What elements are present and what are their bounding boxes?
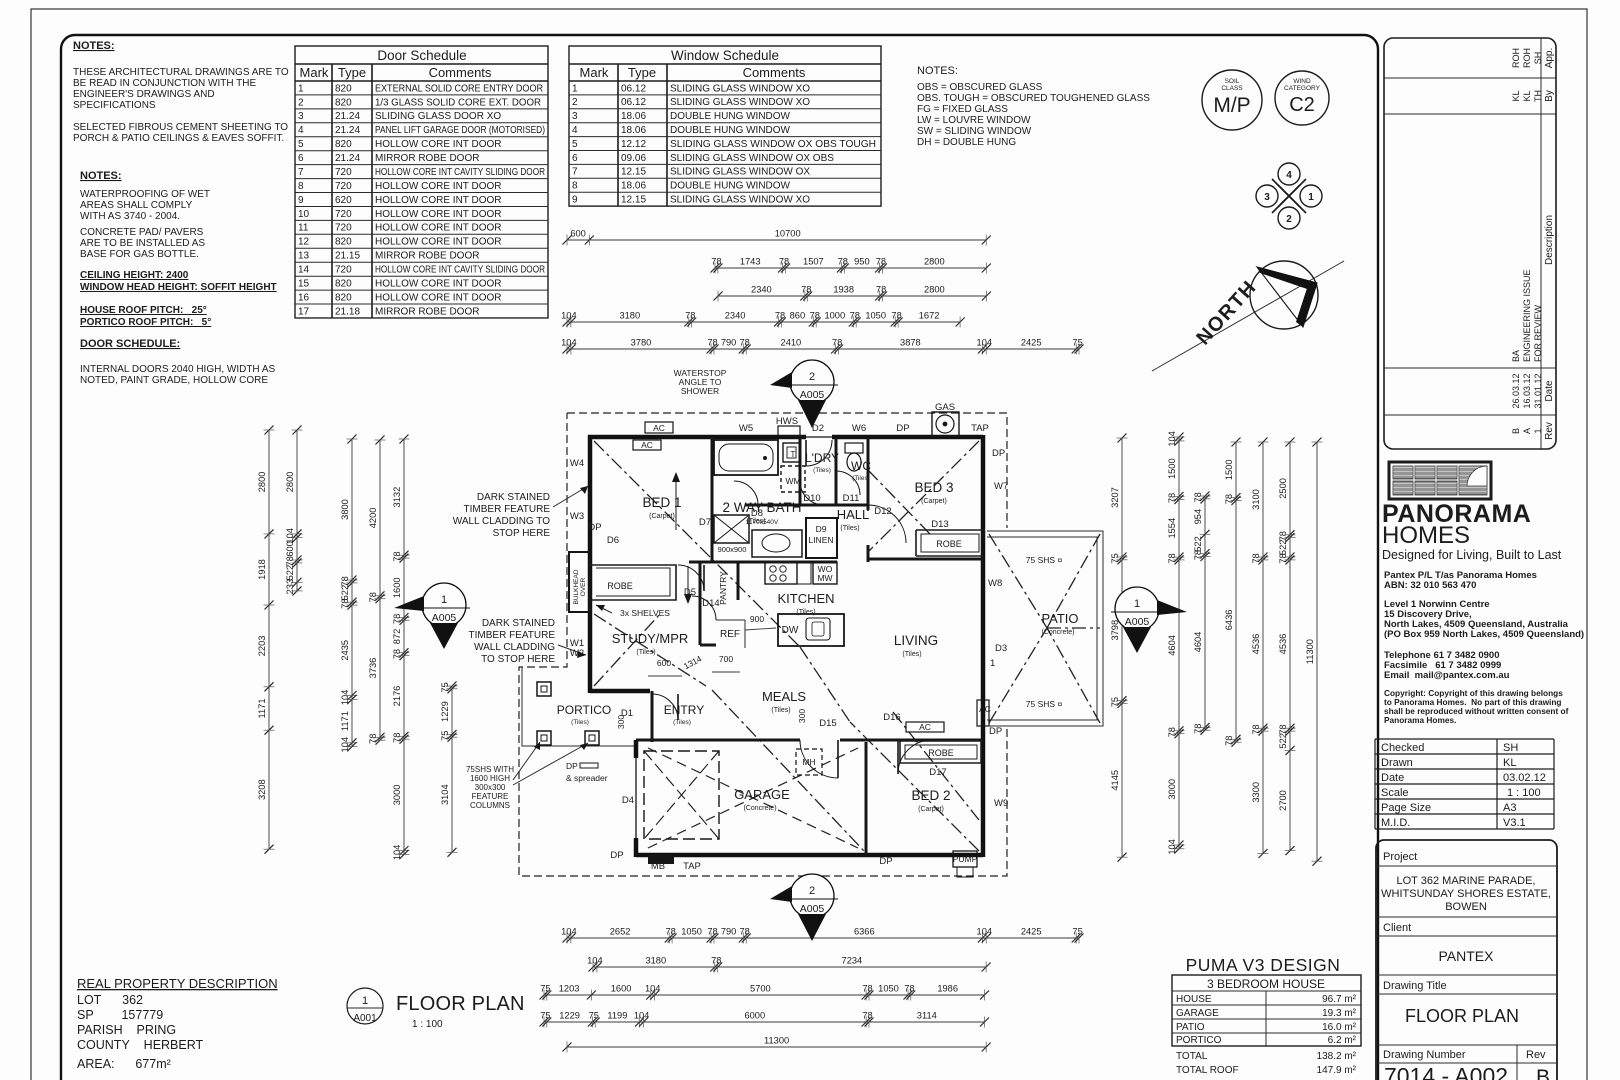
svg-text:860: 860 [790, 311, 806, 321]
svg-text:LW = LOUVRE WINDOW: LW = LOUVRE WINDOW [917, 115, 1031, 126]
door arc D12 bed3 [868, 505, 906, 543]
svg-text:PUMA V3 DESIGN: PUMA V3 DESIGN [1186, 955, 1341, 975]
svg-text:78: 78 [1224, 494, 1234, 504]
svg-text:12: 12 [298, 237, 310, 248]
svg-text:1507: 1507 [803, 257, 824, 267]
svg-text:MEALS: MEALS [762, 689, 806, 704]
svg-text:78: 78 [392, 551, 402, 561]
svg-text:4536: 4536 [1278, 634, 1288, 655]
svg-text:D7: D7 [699, 517, 711, 528]
top dim line 600/10700 [567, 239, 986, 241]
svg-text:3 BEDROOM HOUSE: 3 BEDROOM HOUSE [1207, 977, 1325, 991]
svg-text:75: 75 [540, 1011, 550, 1021]
svg-text:3: 3 [572, 111, 578, 122]
svg-text:BED 3: BED 3 [914, 480, 953, 495]
svg-text:03.02.12: 03.02.12 [1503, 772, 1546, 784]
svg-text:D5: D5 [684, 587, 696, 598]
svg-text:WITH AS 3740 - 2004.: WITH AS 3740 - 2004. [80, 211, 180, 222]
svg-text:D6: D6 [607, 535, 619, 546]
svg-text:D2: D2 [812, 423, 824, 434]
svg-text:FLOOR PLAN: FLOOR PLAN [396, 993, 525, 1015]
garage-bed2 wall [865, 742, 868, 855]
svg-text:1 : 100: 1 : 100 [1507, 787, 1541, 799]
svg-text:T: T [791, 450, 796, 459]
portico columns [537, 682, 599, 745]
svg-text:THESE ARCHITECTURAL DRAWINGS A: THESE ARCHITECTURAL DRAWINGS ARE TO [73, 67, 289, 78]
svg-text:4604: 4604 [1167, 635, 1177, 656]
svg-text:522: 522 [1278, 540, 1288, 556]
svg-text:75: 75 [1072, 338, 1082, 348]
svg-text:W3: W3 [570, 511, 584, 522]
patio slab [987, 531, 1103, 726]
svg-text:522: 522 [1193, 536, 1203, 552]
robe bulkhead bump [569, 552, 590, 612]
svg-text:3780: 3780 [631, 338, 652, 348]
svg-text:11300: 11300 [764, 1036, 789, 1046]
svg-text:FEATURE: FEATURE [472, 792, 509, 801]
svg-text:(Carpet): (Carpet) [918, 806, 944, 813]
svg-text:DP: DP [588, 522, 601, 533]
svg-text:Designed for Living, Built to: Designed for Living, Built to Last [1382, 548, 1562, 562]
svg-text:(PO Box 959 North Lakes, 4509: (PO Box 959 North Lakes, 4509 Queensland… [1384, 629, 1584, 640]
svg-text:A3: A3 [1503, 802, 1516, 814]
svg-text:6436: 6436 [1224, 610, 1234, 631]
svg-text:BULKHEAD: BULKHEAD [573, 569, 580, 604]
svg-text:3x SHELVES: 3x SHELVES [620, 608, 670, 618]
svg-text:3800: 3800 [340, 499, 350, 520]
right dim line 7 11300 [1316, 442, 1318, 861]
svg-text:21.15: 21.15 [335, 251, 360, 262]
svg-text:(Tiles): (Tiles) [636, 649, 655, 656]
svg-text:DP: DP [566, 761, 578, 771]
svg-text:SLIDING GLASS WINDOW XO: SLIDING GLASS WINDOW XO [670, 83, 810, 94]
svg-text:DP: DP [896, 423, 909, 434]
svg-text:16.03.12: 16.03.12 [1522, 373, 1532, 408]
svg-text:2: 2 [572, 97, 578, 108]
svg-text:WATERPROOFING OF WET: WATERPROOFING OF WET [80, 189, 210, 200]
svg-text:78: 78 [707, 338, 717, 348]
svg-text:W6: W6 [852, 423, 866, 434]
roof hip study a [594, 614, 706, 686]
svg-text:1986: 1986 [937, 984, 958, 994]
right dim line 6 [1289, 442, 1291, 851]
kitchen island [778, 614, 844, 646]
svg-text:MIRROR ROBE DOOR: MIRROR ROBE DOOR [375, 153, 479, 164]
svg-text:6: 6 [298, 153, 304, 164]
bath-hall wall [745, 504, 800, 507]
svg-text:SLIDING GLASS WINDOW OX: SLIDING GLASS WINDOW OX [670, 167, 810, 178]
svg-text:1672: 1672 [919, 311, 940, 321]
door arc D10 [800, 481, 824, 505]
svg-text:6.2 m²: 6.2 m² [1328, 1035, 1357, 1046]
svg-text:(Carpet): (Carpet) [921, 498, 947, 505]
svg-text:820: 820 [335, 237, 352, 248]
section marker left [394, 583, 470, 649]
svg-text:HOLLOW CORE INT DOOR: HOLLOW CORE INT DOOR [375, 223, 502, 234]
svg-text:8: 8 [572, 181, 578, 192]
svg-text:(Tiles): (Tiles) [902, 651, 921, 658]
svg-text:3300: 3300 [1251, 782, 1261, 803]
svg-text:10: 10 [298, 209, 310, 220]
svg-text:900x900: 900x900 [718, 545, 747, 554]
svg-text:78: 78 [711, 956, 721, 966]
svg-text:PATIO: PATIO [1176, 1022, 1205, 1033]
svg-text:OBS = OBSCURED GLASS: OBS = OBSCURED GLASS [917, 82, 1043, 93]
svg-text:78: 78 [850, 311, 860, 321]
svg-text:1050: 1050 [681, 927, 702, 937]
soil class symbol M/P [1202, 70, 1262, 130]
svg-text:1: 1 [990, 658, 995, 669]
svg-text:104: 104 [645, 984, 661, 994]
ldry-wc wall [799, 437, 802, 505]
svg-text:790: 790 [721, 338, 737, 348]
garage internal cross box [644, 751, 719, 839]
top dim line 4 [567, 321, 960, 323]
svg-text:820: 820 [335, 279, 352, 290]
svg-text:STOP HERE: STOP HERE [493, 528, 551, 539]
svg-text:HALL: HALL [837, 507, 870, 522]
svg-text:720: 720 [335, 181, 352, 192]
svg-text:620: 620 [335, 195, 352, 206]
svg-text:GARAGE: GARAGE [734, 787, 790, 802]
svg-text:2203: 2203 [257, 636, 267, 657]
svg-text:21.24: 21.24 [335, 153, 360, 164]
wall oven microwave [813, 562, 837, 584]
svg-text:Date: Date [1381, 772, 1404, 784]
svg-text:D4: D4 [622, 795, 634, 806]
svg-text:104: 104 [392, 845, 402, 861]
svg-text:Project: Project [1383, 851, 1417, 863]
svg-text:STUDY/MPR: STUDY/MPR [612, 631, 689, 646]
svg-text:AC: AC [653, 423, 665, 433]
svg-text:78: 78 [740, 927, 750, 937]
svg-text:1170x540V: 1170x540V [746, 519, 779, 526]
svg-text:3132: 3132 [392, 487, 402, 508]
svg-text:PANTEX: PANTEX [1439, 948, 1495, 964]
svg-text:REF: REF [720, 629, 740, 640]
svg-text:1: 1 [1134, 598, 1140, 610]
svg-text:75: 75 [1110, 697, 1120, 707]
svg-text:1050: 1050 [878, 984, 899, 994]
svg-text:3180: 3180 [645, 956, 666, 966]
svg-text:HOLLOW CORE INT DOOR: HOLLOW CORE INT DOOR [375, 139, 502, 150]
svg-text:78: 78 [1251, 724, 1261, 734]
svg-text:COUNTY HERBERT: COUNTY HERBERT [77, 1038, 204, 1052]
svg-text:CATEGORY: CATEGORY [1284, 85, 1321, 92]
svg-text:D11: D11 [843, 493, 860, 504]
svg-text:App.: App. [1544, 48, 1555, 69]
svg-text:3180: 3180 [619, 311, 640, 321]
svg-text:TOTAL: TOTAL [1176, 1051, 1208, 1062]
svg-text:78: 78 [392, 733, 402, 743]
svg-text:KITCHEN: KITCHEN [777, 591, 834, 606]
svg-text:78: 78 [340, 599, 350, 609]
svg-text:720: 720 [335, 265, 352, 276]
svg-text:78: 78 [666, 927, 676, 937]
svg-text:78: 78 [685, 311, 695, 321]
svg-text:(Tiles): (Tiles) [673, 719, 691, 726]
svg-text:ROH: ROH [1522, 48, 1532, 68]
svg-text:1: 1 [1308, 192, 1314, 203]
wc right wall [835, 437, 838, 505]
svg-text:SLIDING GLASS DOOR XO: SLIDING GLASS DOOR XO [375, 111, 501, 122]
svg-text:21.24: 21.24 [335, 125, 360, 136]
svg-text:Page Size: Page Size [1381, 802, 1431, 814]
svg-text:78: 78 [1251, 553, 1261, 563]
left dim line 3 [351, 439, 353, 747]
svg-text:104: 104 [340, 737, 350, 753]
svg-text:NOTES:: NOTES: [917, 65, 958, 77]
hall-bed3 wall [867, 437, 870, 510]
svg-text:M/P: M/P [1213, 94, 1250, 117]
svg-text:Email mail@pantex.com.au: Email mail@pantex.com.au [1384, 670, 1510, 681]
svg-text:4200: 4200 [368, 508, 378, 529]
svg-text:DARK STAINED: DARK STAINED [482, 618, 555, 629]
right dim line 1 [1121, 438, 1123, 857]
svg-text:820: 820 [335, 97, 352, 108]
svg-text:2800: 2800 [924, 285, 945, 295]
section marker bottom [770, 874, 838, 941]
bath-kitchen wall [689, 561, 837, 564]
svg-text:78: 78 [392, 649, 402, 659]
svg-text:ENGINEERING ISSUE: ENGINEERING ISSUE [1522, 269, 1532, 362]
svg-text:147.9 m²: 147.9 m² [1317, 1065, 1357, 1076]
svg-text:BA: BA [1511, 350, 1521, 362]
svg-text:WHITSUNDAY SHORES ESTATE,: WHITSUNDAY SHORES ESTATE, [1381, 888, 1551, 900]
svg-text:MIRROR ROBE DOOR: MIRROR ROBE DOOR [375, 251, 479, 262]
svg-text:3: 3 [1264, 192, 1270, 203]
roof ridge [800, 647, 850, 722]
svg-text:820: 820 [335, 83, 352, 94]
svg-text:FG = FIXED GLASS: FG = FIXED GLASS [917, 104, 1008, 115]
svg-text:D14: D14 [702, 598, 719, 609]
svg-text:WINDOW HEAD HEIGHT: SOFFIT HEI: WINDOW HEAD HEIGHT: SOFFIT HEIGHT [80, 282, 277, 293]
svg-text:TAP: TAP [971, 423, 989, 434]
exterior wall bottom [636, 853, 983, 858]
svg-text:FOR REVIEW: FOR REVIEW [1533, 304, 1543, 362]
svg-text:TIMBER FEATURE: TIMBER FEATURE [469, 630, 556, 641]
door arc D2 ldry [806, 440, 832, 466]
svg-text:MW: MW [817, 573, 832, 583]
svg-text:1199: 1199 [607, 1011, 627, 1021]
svg-text:D17: D17 [929, 767, 946, 778]
svg-text:78: 78 [740, 338, 750, 348]
svg-text:19.3 m²: 19.3 m² [1322, 1008, 1357, 1019]
svg-text:96.7 m²: 96.7 m² [1322, 994, 1357, 1005]
svg-text:AC: AC [919, 722, 931, 732]
svg-text:4: 4 [1286, 170, 1292, 181]
svg-text:ROH: ROH [1511, 48, 1521, 68]
svg-text:BE READ IN CONJUNCTION WITH TH: BE READ IN CONJUNCTION WITH THE [73, 78, 256, 89]
left dim line 4 [379, 440, 381, 740]
svg-text:Rev: Rev [1544, 422, 1555, 440]
wc bottom wall [800, 504, 868, 507]
svg-text:104: 104 [634, 1011, 650, 1021]
svg-text:L'DRY: L'DRY [805, 451, 839, 465]
svg-text:OVER: OVER [580, 577, 587, 596]
svg-text:CLASS: CLASS [1221, 85, 1243, 92]
area table [1172, 975, 1361, 1046]
svg-text:WIND: WIND [1293, 78, 1311, 85]
door arc D11 wc [836, 471, 860, 495]
exterior wall garage left [634, 740, 639, 857]
svg-text:21.24: 21.24 [335, 111, 360, 122]
svg-text:PORCH & PATIO CEILINGS & EAVES: PORCH & PATIO CEILINGS & EAVES SOFFIT. [73, 133, 284, 144]
svg-text:D12: D12 [874, 506, 891, 517]
svg-text:300: 300 [616, 715, 626, 729]
svg-text:1600 HIGH: 1600 HIGH [470, 774, 510, 783]
hws unit [778, 426, 800, 436]
svg-text:2: 2 [809, 371, 815, 383]
svg-text:4: 4 [298, 125, 304, 136]
top dim line 5 [567, 348, 1079, 350]
svg-text:1938: 1938 [833, 285, 854, 295]
portico slab [522, 667, 637, 746]
svg-text:KL: KL [1511, 90, 1521, 101]
svg-text:2: 2 [1286, 214, 1292, 225]
study bottom wall [590, 689, 650, 694]
svg-text:Description: Description [1544, 215, 1555, 265]
svg-text:PORTICO: PORTICO [1176, 1035, 1222, 1046]
svg-text:2800: 2800 [285, 472, 295, 493]
bath tub [714, 440, 778, 475]
wc toilet [845, 443, 863, 453]
svg-text:FLOOR PLAN: FLOOR PLAN [1405, 1006, 1519, 1026]
svg-text:720: 720 [335, 167, 352, 178]
svg-text:D16: D16 [883, 712, 900, 723]
svg-text:ARE TO BE INSTALLED AS: ARE TO BE INSTALLED AS [80, 238, 205, 249]
svg-text:1229: 1229 [440, 701, 450, 722]
svg-text:78: 78 [1193, 492, 1203, 502]
ac unit bed2 [906, 722, 944, 732]
svg-text:18.06: 18.06 [621, 125, 646, 136]
svg-text:ROBE: ROBE [607, 581, 633, 591]
svg-text:Door Schedule: Door Schedule [377, 48, 466, 63]
svg-text:DOUBLE HUNG WINDOW: DOUBLE HUNG WINDOW [670, 125, 791, 136]
left dim line 2 [296, 430, 298, 591]
svg-text:W7: W7 [994, 481, 1008, 492]
svg-text:C2: C2 [1289, 94, 1315, 116]
svg-text:7: 7 [572, 167, 578, 178]
svg-text:SHOWER: SHOWER [681, 386, 719, 396]
svg-text:A005: A005 [432, 612, 457, 624]
svg-text:OBS. TOUGH = OBSCURED TOUGHENE: OBS. TOUGH = OBSCURED TOUGHENED GLASS [917, 93, 1150, 104]
svg-text:104: 104 [340, 690, 350, 706]
svg-text:Drawing Number: Drawing Number [1383, 1049, 1466, 1061]
svg-text:21.18: 21.18 [335, 306, 360, 317]
bottom dim line 1 [567, 937, 1079, 939]
svg-text:78: 78 [707, 927, 717, 937]
svg-text:SELECTED FIBROUS CEMENT SHEETI: SELECTED FIBROUS CEMENT SHEETING TO [73, 122, 288, 133]
svg-text:11300: 11300 [1305, 639, 1315, 664]
elevation orientation symbol [1256, 163, 1322, 229]
svg-text:A001: A001 [353, 1013, 377, 1024]
svg-text:1171: 1171 [257, 699, 267, 719]
garage top wall [636, 739, 800, 742]
svg-text:2800: 2800 [257, 472, 267, 493]
svg-text:2340: 2340 [725, 311, 746, 321]
svg-text:TIMBER FEATURE: TIMBER FEATURE [464, 504, 551, 515]
svg-text:D10: D10 [803, 493, 820, 504]
svg-text:SP 157779: SP 157779 [77, 1008, 163, 1022]
svg-text:1 : 100: 1 : 100 [412, 1019, 443, 1030]
manhole [796, 749, 822, 775]
door arc D8 bath [734, 481, 758, 505]
pump box [953, 851, 977, 867]
roof hip meals [712, 690, 864, 851]
svg-text:SH: SH [1503, 742, 1518, 754]
svg-text:138.2 m²: 138.2 m² [1317, 1051, 1357, 1062]
bottom dim line 2 [593, 966, 986, 968]
svg-text:4536: 4536 [1251, 634, 1261, 655]
svg-text:(Concrete): (Concrete) [743, 805, 776, 812]
fridge space [716, 620, 745, 648]
door opening D2 [806, 434, 832, 441]
svg-text:BED 1: BED 1 [642, 495, 681, 510]
svg-text:SLIDING GLASS WINDOW OX OBS TO: SLIDING GLASS WINDOW OX OBS TOUGH [670, 139, 876, 150]
svg-text:12.15: 12.15 [621, 167, 646, 178]
svg-text:104: 104 [561, 927, 577, 937]
svg-text:NOTES:: NOTES: [80, 170, 122, 182]
svg-text:CONCRETE PAD/ PAVERS: CONCRETE PAD/ PAVERS [80, 227, 204, 238]
svg-text:78: 78 [1193, 550, 1203, 560]
svg-text:2: 2 [298, 97, 304, 108]
svg-text:300: 300 [797, 709, 807, 723]
svg-text:LOT 362 MARINE PARADE,: LOT 362 MARINE PARADE, [1397, 875, 1536, 887]
bed1 robe walls [590, 565, 676, 600]
svg-text:SW = SLIDING WINDOW: SW = SLIDING WINDOW [917, 126, 1032, 137]
svg-text:872: 872 [392, 629, 402, 645]
svg-text:Drawn: Drawn [1381, 757, 1413, 769]
svg-text:3104: 3104 [440, 784, 450, 805]
svg-text:720: 720 [335, 223, 352, 234]
svg-text:06.12: 06.12 [621, 83, 646, 94]
cooktop [765, 562, 797, 584]
svg-text:78: 78 [1278, 553, 1288, 563]
svg-text:7014 - A002: 7014 - A002 [1384, 1063, 1508, 1080]
svg-text:HWS: HWS [776, 416, 798, 427]
svg-text:900: 900 [750, 614, 764, 624]
svg-text:AC: AC [979, 704, 991, 714]
left dim line 1 [268, 430, 270, 849]
svg-text:AC: AC [641, 440, 653, 450]
svg-text:1: 1 [298, 83, 304, 94]
pantry walls [700, 562, 738, 645]
svg-text:TOTAL ROOF: TOTAL ROOF [1176, 1065, 1239, 1076]
svg-text:HOMES: HOMES [1382, 522, 1470, 549]
svg-text:PUMP: PUMP [953, 854, 978, 864]
svg-text:3736: 3736 [368, 658, 378, 679]
door arc D14 kitchen [692, 596, 716, 620]
svg-text:(Concrete): (Concrete) [1041, 629, 1074, 636]
svg-text:17: 17 [298, 306, 310, 317]
svg-text:820: 820 [335, 139, 352, 150]
svg-text:1/3 GLASS SOLID CORE EXT. DOOR: 1/3 GLASS SOLID CORE EXT. DOOR [375, 97, 541, 108]
svg-text:3000: 3000 [392, 785, 402, 806]
drawing callout 1/A001 [347, 988, 383, 1024]
svg-text:DOOR SCHEDULE:: DOOR SCHEDULE: [80, 338, 180, 350]
svg-text:78: 78 [368, 734, 378, 744]
svg-text:A: A [1522, 428, 1532, 434]
svg-text:14: 14 [298, 265, 310, 276]
bottom dim line 3 [544, 994, 985, 996]
svg-text:HOLLOW CORE INT CAVITY SLIDING: HOLLOW CORE INT CAVITY SLIDING DOOR [375, 167, 545, 178]
svg-text:Date: Date [1544, 380, 1555, 402]
svg-text:PARISH PRING: PARISH PRING [77, 1023, 176, 1037]
svg-text:78: 78 [392, 614, 402, 624]
svg-text:3100: 3100 [1251, 489, 1261, 510]
svg-text:8: 8 [298, 181, 304, 192]
